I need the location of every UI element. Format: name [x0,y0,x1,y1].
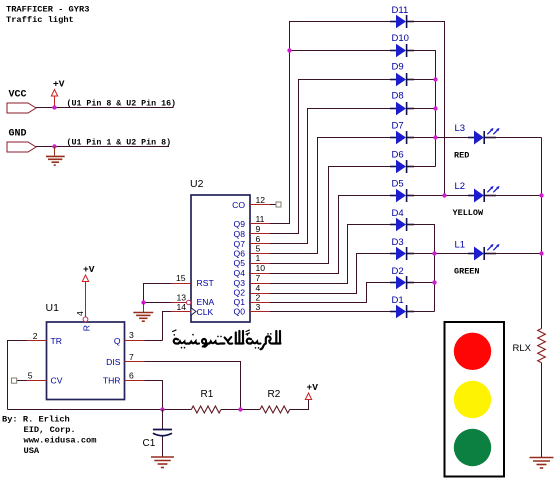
title text [6,5,89,26]
wire Q2 to D3 [250,254,392,294]
port GND [7,129,36,153]
ground (U2 ENA) [133,303,153,322]
svg-text:14: 14 [176,302,186,312]
wire Q9 to D11 [250,22,392,224]
svg-text:RST: RST [197,278,215,288]
junction D11 bus/L2 row [442,193,446,197]
svg-text:Q7: Q7 [234,239,246,249]
svg-text:6: 6 [256,234,261,244]
svg-text:13: 13 [176,293,186,303]
svg-text:R2: R2 [268,389,281,400]
svg-text:+V: +V [83,264,95,275]
node label Arabic (electronic village) [173,330,281,349]
wire GND rail [36,146,169,148]
wire right rail down [541,138,543,329]
svg-text:D9: D9 [392,62,404,73]
ground (GND rail) [46,147,65,166]
green lamp [454,429,491,466]
wire Q4 to D5 [250,196,392,274]
junction D8/red bus [433,106,437,110]
wire D7 cathode to L3 [409,137,472,139]
svg-text:7: 7 [129,352,134,362]
word 2 (left): electronic [174,331,244,347]
svg-text:D5: D5 [392,179,404,190]
svg-text:CLK: CLK [197,307,214,317]
svg-text:L1: L1 [455,240,466,251]
svg-text:www.eidusa.com: www.eidusa.com [24,436,97,446]
svg-text:TR: TR [51,336,62,346]
junction D7/red bus [433,135,437,139]
svg-text:15: 15 [176,273,186,283]
wire D1 cathode [409,311,435,313]
svg-text:CV: CV [51,376,63,386]
junction D3/green bus [432,251,436,255]
svg-text:THR: THR [103,376,121,386]
no-connect square (CV) [12,378,17,383]
diode D8 [390,91,414,116]
wire D9 cathode [409,79,436,81]
svg-text:L3: L3 [455,123,466,134]
svg-text:7: 7 [256,273,261,283]
svg-text:3: 3 [129,330,134,340]
svg-text:Q1: Q1 [234,297,246,307]
diode D6 [390,150,414,174]
junction Q9/D10 [287,48,291,52]
junction VCC/+V [52,105,56,109]
svg-text:Q6: Q6 [234,249,246,259]
diode D3 [390,237,414,260]
wire pin4 to +V [85,282,87,317]
svg-text:(U1 Pin 1 & U2 Pin 8): (U1 Pin 1 & U2 Pin 8) [67,138,172,148]
diode D4 [390,208,414,231]
diode D7 [390,121,414,145]
svg-text:GND: GND [9,129,27,140]
svg-text:+V: +V [307,382,319,393]
diode D10 [390,33,414,57]
svg-text:CO: CO [232,200,245,210]
wire RLX to ground [541,363,543,457]
junction L1/right rail [539,251,543,255]
IC pin leads (red) [27,205,271,381]
wire Q1 to D2 [250,283,392,303]
red lamp [454,333,491,370]
svg-text:TRAFFICER - GYR3: TRAFFICER - GYR3 [6,5,89,15]
wire L2 to right rail [486,195,542,197]
junction DIS/rail [238,407,242,411]
svg-text:C1: C1 [143,438,156,449]
svg-text:12: 12 [256,195,266,205]
svg-text:Q5: Q5 [234,258,246,268]
wire D10 cathode to red bus [409,51,436,167]
svg-text:By: R. Erlich: By: R. Erlich [2,415,70,425]
diode D1 [390,295,414,318]
svg-text:EID, Corp.: EID, Corp. [24,425,76,435]
no-connect square (CO) [276,202,281,207]
svg-text:2: 2 [33,331,38,341]
wire R2 to +V [290,400,309,410]
svg-text:D10: D10 [392,33,409,44]
wire D3 cathode to L1 [409,253,472,255]
wire bottom rail [8,409,192,411]
junction GND [52,144,56,148]
svg-text:3: 3 [256,302,261,312]
wire THR right down [125,381,163,410]
wire Q5 to D6 [250,167,392,264]
wire D4 cathode to green bus [409,225,435,312]
ground (RLX) [530,458,554,469]
wire CO stub [250,204,276,206]
wire Q8 to D9 [250,80,392,234]
svg-text:11: 11 [256,214,265,224]
svg-text:Q2: Q2 [234,288,246,298]
power +V (VCC) [51,79,64,108]
svg-text:+V: +V [53,79,65,90]
word 1 (right): alqarya [247,331,281,349]
wire VCC rail [36,107,174,109]
junction D2/green bus [432,280,436,284]
wire D6 cathode [409,166,436,168]
svg-text:Q0: Q0 [234,307,246,317]
port VCC [7,90,36,114]
inversion bubble pin 4 [83,317,88,322]
power +V (U1 pin 4) [82,264,94,282]
LED L3 (RED) [454,123,500,161]
svg-text:R: R [82,325,92,331]
svg-text:D7: D7 [392,121,404,132]
svg-text:Q9: Q9 [234,219,246,229]
svg-text:RED: RED [454,151,469,161]
wire DIS right down [125,362,241,410]
svg-text:D8: D8 [392,91,404,102]
svg-text:4: 4 [75,311,85,316]
svg-text:9: 9 [256,224,261,234]
svg-text:DIS: DIS [106,357,121,367]
junction RST/ENA [141,300,145,304]
wire D8 cathode [409,108,436,110]
svg-text:Q4: Q4 [234,268,246,278]
svg-text:1: 1 [256,253,261,263]
svg-text:D2: D2 [392,266,404,277]
wire L1 to right rail [486,253,542,255]
svg-text:ENA: ENA [197,297,215,307]
svg-text:L2: L2 [455,181,466,192]
diode D5 [390,179,414,203]
capacitor C1 [143,410,173,457]
traffic light signal graphic [445,322,505,477]
resistor R2 [260,389,290,413]
resistor RLX [513,329,546,363]
diode D11 [390,5,414,28]
wire D10 anode branch [290,50,393,52]
wire ENA left [144,302,187,304]
svg-text:USA: USA [24,446,40,456]
svg-text:VCC: VCC [9,90,27,101]
svg-text:U2: U2 [190,178,204,190]
yellow lamp [454,381,491,418]
wire Q0 to D1 [250,311,392,313]
clock triangle CLK [191,308,196,315]
inversion bubble ENA [186,300,190,304]
junction THR/C1/rail [160,407,164,411]
wire Q3 to D4 [250,225,392,284]
svg-text:D11: D11 [392,5,409,16]
svg-text:Q8: Q8 [234,229,246,239]
svg-text:Traffic light: Traffic light [6,15,74,25]
svg-text:Q: Q [114,336,121,346]
svg-text:D1: D1 [392,295,404,306]
svg-text:5: 5 [256,244,261,254]
svg-text:4: 4 [256,283,261,293]
LED L1 (GREEN) [454,240,500,277]
IC U2 (counter) [176,178,265,322]
svg-text:D4: D4 [392,208,404,219]
svg-text:GREEN: GREEN [454,267,480,277]
power +V (R2) [305,382,318,400]
wire CV stub [17,380,47,382]
wire Q to CLK riser [125,340,163,342]
wire CLK from U1 Q [163,312,192,341]
svg-text:R1: R1 [201,389,214,400]
svg-text:5: 5 [28,371,33,381]
wire RST left [144,284,192,303]
ground (C1) [151,457,174,468]
diode D2 [390,266,414,289]
LED L2 (YELLOW) [453,181,500,218]
wire Q6 to D7 [250,138,392,254]
svg-text:Q3: Q3 [234,278,246,288]
wire D11 cathode to yellow bus [409,22,445,196]
svg-text:D6: D6 [392,150,404,161]
wire D2 cathode [409,282,435,284]
svg-text:RLX: RLX [513,343,532,354]
junction D9/red bus [433,77,437,81]
junction L2/right rail [539,193,543,197]
svg-text:YELLOW: YELLOW [453,208,485,218]
svg-text:U1: U1 [46,302,60,314]
wire Q7 to D8 [250,109,392,244]
IC U1 (555 timer) [28,302,134,400]
svg-text:(U1 Pin 8 & U2 Pin 16): (U1 Pin 8 & U2 Pin 16) [67,99,177,109]
wire D5 cathode to L2 [409,195,472,197]
svg-text:10: 10 [256,263,266,273]
by-line text [2,415,97,457]
svg-text:6: 6 [129,371,134,381]
diode D9 [390,62,414,87]
resistor R1 [191,389,221,413]
wire R1 to R2 [221,409,260,411]
wire L3 to right rail [486,137,542,139]
wire TR left down [8,341,47,410]
svg-text:D3: D3 [392,237,404,248]
